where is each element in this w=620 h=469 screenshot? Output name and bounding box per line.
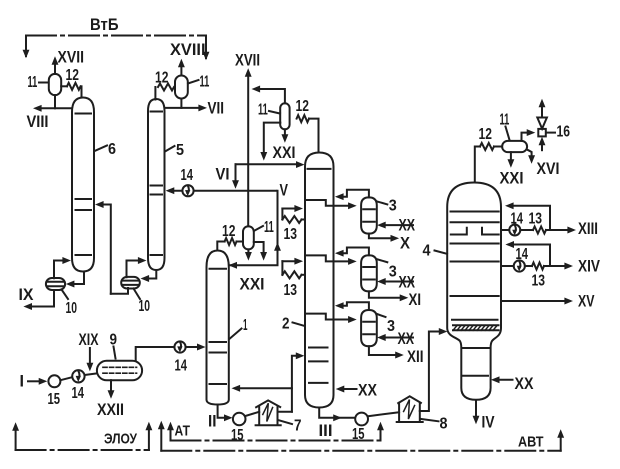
wire stream VI branch [216, 164, 239, 188]
node ELOU battery limit [13, 423, 152, 451]
svg-text:XX: XX [399, 274, 416, 292]
stream XVIII (gas out) [170, 41, 206, 75]
stripper 3c (side steam stripper) [361, 310, 377, 346]
svg-text:14: 14 [516, 246, 529, 263]
wire pump to furnace 7 [245, 412, 259, 416]
condenser 12 (column 1) [222, 223, 237, 245]
reflux drum 11 (column 1) [237, 226, 254, 249]
wire drum 11 side outlet [254, 242, 267, 260]
svg-text:IX: IX [19, 286, 34, 304]
svg-text:12: 12 [222, 223, 235, 240]
svg-text:10: 10 [139, 298, 151, 315]
wire stripper 1 vapor return to column 2 [336, 190, 369, 200]
svg-text:12: 12 [155, 70, 168, 87]
svg-text:АВТ: АВТ [518, 434, 544, 451]
column 6 (secondary distillation tower) [72, 98, 94, 272]
node XXI (unstable head column 1) [240, 276, 265, 294]
stream XVI (to vacuum system) [528, 150, 560, 178]
svg-text:ВтБ: ВтБ [90, 16, 119, 34]
svg-text:XXI: XXI [240, 276, 265, 294]
svg-text:VI: VI [216, 166, 230, 184]
wire column 4 overhead [475, 147, 480, 183]
svg-text:8: 8 [440, 416, 448, 433]
svg-text:XX: XX [399, 217, 416, 235]
stream VII (overhead product) [165, 100, 225, 118]
wire reflux distributor line / stream V riser [229, 182, 288, 269]
stream XX (steam into stripper 2) [378, 274, 415, 292]
svg-text:X: X [400, 235, 410, 253]
svg-text:XX: XX [515, 375, 534, 393]
column 4 (vacuum tower) [447, 183, 501, 400]
svg-text:III: III [319, 422, 333, 440]
label 3 (stripper 3) [377, 314, 395, 335]
wire furnace 7 outlet [278, 411, 292, 413]
svg-text:II: II [208, 413, 217, 431]
wire column 5 bottoms to reboiler [141, 270, 156, 281]
wire drum reflux down to header [261, 123, 281, 160]
svg-text:14: 14 [72, 385, 85, 402]
pump 15 (crude charge) [48, 375, 61, 408]
svg-text:12: 12 [66, 67, 79, 84]
wire reboiler return to column 6 [54, 258, 70, 279]
svg-text:XI: XI [409, 291, 422, 309]
wire column 2 draw to stripper 1 [334, 203, 356, 209]
label 11 [258, 102, 280, 119]
svg-text:XXI: XXI [273, 144, 296, 162]
svg-text:АТ: АТ [175, 423, 191, 440]
svg-text:14: 14 [511, 211, 524, 228]
reflux drum 11 (column 2) [280, 103, 289, 129]
stream XVII (gas to fuel, centre) [235, 52, 260, 227]
svg-text:XVII: XVII [58, 49, 85, 67]
wire desalted crude to exchanger 14 and column 1 [136, 344, 205, 361]
svg-text:11: 11 [258, 102, 268, 119]
svg-text:2: 2 [282, 316, 290, 333]
condenser 12 (column 5) [155, 70, 174, 91]
svg-text:12: 12 [479, 126, 492, 143]
stream XIII (vacuum distillate 1) [546, 220, 598, 238]
label 7 [278, 418, 302, 435]
label 3 (stripper 1) [377, 198, 397, 215]
reboiler 10 (column 5) [121, 277, 140, 289]
svg-text:XVII: XVII [235, 52, 260, 70]
heat exchanger 14 / cooler 13 (stream XIII) [501, 211, 546, 236]
node AT battery limit [168, 423, 384, 441]
svg-text:13: 13 [284, 282, 298, 299]
wire pump to furnace 8 [368, 412, 399, 416]
node AVT battery limit [158, 422, 563, 451]
ejector 16 (steam ejector) [537, 100, 547, 151]
wire furnace 7 branch to column 1 [232, 385, 292, 391]
svg-text:3: 3 [389, 264, 397, 281]
label 1 [229, 317, 247, 339]
condenser 12 (column 4) [479, 126, 495, 150]
wire feed into column 6 (from column 5 bottoms) [96, 202, 111, 294]
label 8 [421, 416, 447, 433]
condenser 12 (column 2) [296, 98, 310, 122]
stream III (column 2 bottoms to furnace 8) [319, 408, 356, 440]
chimney tray (column 4) [451, 228, 499, 235]
tray/draw pan 1 in column 2 [307, 200, 334, 206]
wire reboiler return to column 5 [127, 258, 146, 278]
furnace 7 (atmospheric furnace) [256, 400, 281, 425]
wire column 5 overhead vapor [154, 87, 156, 100]
condenser 12 (column 6) [66, 67, 81, 90]
svg-text:13: 13 [532, 273, 546, 290]
stream XIX (water into desalter) [79, 331, 99, 371]
heat exchanger 14 / cooler 13 (stream XIV) [501, 246, 545, 290]
label 11 [254, 219, 274, 236]
stripper 3b (side steam stripper) [361, 255, 377, 291]
label 3 (stripper 2) [377, 259, 397, 280]
stream X (stripper 1 product) [369, 234, 410, 253]
stream I (crude oil in) [20, 373, 47, 391]
svg-text:9: 9 [110, 332, 118, 349]
label 4 [423, 243, 448, 260]
stream IV (tar / goudron) [473, 400, 495, 432]
svg-text:3: 3 [387, 318, 395, 335]
svg-text:13: 13 [529, 211, 543, 228]
svg-text:11: 11 [28, 74, 38, 91]
label 9 [110, 332, 118, 359]
wire XIII reflux return [506, 203, 550, 230]
stream IX (bottoms product) [19, 286, 55, 310]
wire exchanger to desalter [85, 373, 97, 375]
wire XIV reflux return [506, 242, 550, 267]
wire column 6 bottoms to reboiler [67, 272, 84, 287]
desalter 9 (ELOU electric desalter) [97, 361, 142, 381]
svg-text:1: 1 [243, 317, 248, 334]
svg-text:5: 5 [176, 142, 184, 159]
tray/draw pan 2 in column 2 [307, 255, 334, 261]
furnace 8 (vacuum furnace) [397, 396, 423, 422]
wire column 2 overhead vapor [309, 119, 319, 153]
svg-text:XX: XX [398, 330, 415, 348]
svg-text:I: I [20, 373, 25, 391]
tray/draw pan 3 in column 2 [307, 314, 334, 320]
heat exchanger 14 (crude preheat) [72, 370, 85, 402]
label 11 [28, 74, 49, 91]
stream XX (steam into column 4) [492, 375, 534, 393]
label 5 [165, 142, 184, 159]
svg-text:16: 16 [557, 124, 571, 141]
stream XXI (from column 4 drum) [500, 152, 524, 187]
stream XX (steam into stripper 1) [378, 217, 415, 235]
wire column 1 overhead vapor [217, 242, 224, 251]
stream XV (vacuum gas oil) [501, 293, 595, 311]
column 5 (secondary distillation tower) [148, 99, 165, 270]
column 1 (pre-flash tower) [207, 251, 229, 405]
label 11 [188, 74, 209, 91]
wire column 2 draw to stripper 2 [334, 258, 356, 264]
wire stripper 3 vapor return to column 2 [336, 302, 369, 310]
wire column 6 overhead vapor [81, 86, 83, 97]
pumparound cooler 13 (upper) [282, 206, 305, 243]
svg-text:13: 13 [284, 226, 298, 243]
svg-text:14: 14 [181, 167, 194, 184]
label 16 [546, 124, 570, 141]
svg-text:3: 3 [389, 198, 397, 215]
stream XVII (gas out, left) [52, 49, 84, 74]
pump 15 (column 2 bottoms) [352, 413, 368, 443]
wire pump to exchanger [60, 377, 72, 380]
wire furnace 7 transfer to column 2 [292, 353, 304, 412]
label 6 [95, 141, 117, 158]
label 10 [134, 289, 151, 316]
svg-text:XX: XX [358, 382, 377, 400]
stream XI (stripper 2 product) [369, 291, 421, 309]
wire furnace 8 transfer to column 4 [420, 329, 447, 412]
column 2 (atmospheric tower) [305, 153, 334, 408]
svg-text:ЭЛОУ: ЭЛОУ [104, 431, 138, 448]
reflux drum 11 (column 6) [49, 74, 61, 95]
packing bed (column 4) [453, 325, 499, 330]
wire reflux to column 2 top [236, 162, 304, 168]
wire drum to ejector [522, 130, 535, 141]
wire stripper 2 vapor return to column 2 [336, 248, 369, 257]
svg-text:10: 10 [66, 300, 78, 317]
svg-text:XIV: XIV [578, 258, 600, 276]
svg-text:XIX: XIX [79, 331, 99, 349]
svg-text:XXI: XXI [500, 170, 524, 188]
svg-text:7: 7 [294, 418, 302, 435]
svg-text:XVIII: XVIII [170, 41, 206, 59]
svg-text:4: 4 [423, 243, 431, 260]
stream XXI (from column 2 drum) [273, 129, 296, 162]
svg-text:15: 15 [48, 391, 61, 408]
stream VIII (reflux/product line) [27, 105, 72, 131]
wire drum 11 bottom outlet [54, 95, 56, 108]
node VtB bracket (secondary-distillation battery limit) [23, 16, 209, 60]
reflux drum 11 (column 5) [175, 76, 188, 99]
pumparound cooler 13 (lower) [282, 258, 305, 299]
svg-text:XII: XII [407, 348, 424, 366]
svg-text:11: 11 [264, 219, 274, 236]
heat exchanger 14 (column 1 feed) [174, 341, 187, 374]
stream II (column 1 bottoms) [208, 405, 232, 431]
svg-text:11: 11 [200, 74, 210, 91]
label 2 [282, 316, 304, 333]
wire column 5 bottoms down (to column 6 feed) [111, 288, 128, 294]
wire drum 11 bottom to distributor [245, 249, 251, 259]
wire drum gas to XVII riser [252, 86, 285, 103]
label 10 [62, 290, 78, 318]
wire drum 11 bottom outlet [180, 99, 182, 108]
reflux drum 11 (column 4, horizontal) [494, 141, 527, 152]
heat exchanger 14 (column 5 feed) [167, 167, 277, 196]
svg-text:VII: VII [208, 100, 225, 118]
wire column 2 draw to stripper 3 [334, 317, 356, 323]
svg-text:IV: IV [482, 414, 495, 432]
label 11 [500, 112, 510, 141]
stream XXII (brine out) [97, 380, 124, 419]
svg-text:XXII: XXII [97, 401, 124, 419]
wire drum to condenser [61, 85, 67, 87]
svg-text:12: 12 [296, 98, 309, 115]
svg-text:V: V [280, 182, 289, 200]
stream XIV (vacuum distillate 2) [544, 258, 600, 276]
stream XX (steam into column 2) [337, 382, 378, 400]
stream XX (steam into stripper 3) [378, 330, 414, 348]
stripper 3a (side steam stripper) [361, 197, 377, 233]
svg-text:XVI: XVI [537, 160, 560, 178]
svg-text:14: 14 [175, 358, 188, 375]
reboiler 10 (column 6) [46, 278, 65, 290]
pump 15 (column 1 bottoms) [231, 413, 246, 444]
svg-text:6: 6 [108, 141, 116, 158]
svg-text:XIII: XIII [578, 220, 598, 238]
svg-text:VIII: VIII [27, 113, 49, 131]
svg-text:XV: XV [578, 293, 595, 311]
stream XII (stripper 3 product) [369, 346, 424, 366]
